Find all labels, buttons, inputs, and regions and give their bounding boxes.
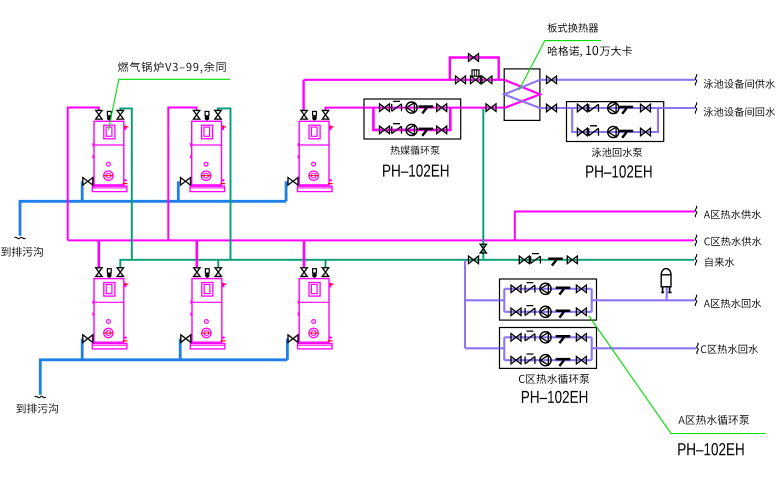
label: 燃气锅炉V3-99,余同 [118, 62, 226, 73]
break symbol on lower drain outlet [35, 396, 46, 398]
label: A区热水回水 [704, 299, 761, 308]
label: 泳池回水泵 [592, 148, 643, 157]
wire: violet C-zone pump manifold [500, 337, 597, 360]
label: PH-102EH pool [586, 165, 651, 177]
wire: blue drop boiler B6 [286, 339, 289, 360]
valve on tap water main near riser [469, 256, 479, 264]
wire: blue blowdown header upper row to drain [20, 201, 286, 236]
wire: violet pool pump branch bottom loop [572, 108, 658, 132]
break symbol A-zone return [695, 295, 697, 306]
wire: blue drop boiler B5 [179, 339, 182, 360]
wire: violet pool pump branch top row [567, 107, 664, 109]
label: PH-102EH A-zone [678, 443, 743, 455]
wire: teal riser from HX return line down to tap main [482, 109, 484, 260]
wire: violet suction branch to A-zone pump box [465, 299, 500, 301]
tap water meter group: flexible joint [531, 254, 541, 264]
valve on supply before control valve [456, 76, 466, 84]
label: PH-102EH heat medium [383, 164, 448, 176]
C-zone pump branch symbols P7 [511, 334, 521, 342]
pump branch symbols P1 (valve, flex joint, pump, check valve, valve) [380, 104, 390, 112]
break symbol C-zone return [697, 343, 699, 354]
leader line for boiler label [109, 79, 231, 130]
label: 哈格诺,10万大卡 [548, 46, 632, 57]
label: C区热水供水 [704, 237, 761, 246]
wire: violet secondary chevron inside heat exchanger [504, 80, 540, 108]
boiler B1 gas-fired V3-99 [83, 110, 129, 191]
break symbol tap water [695, 254, 697, 265]
wire: magenta supply header to heat exchanger y80 [304, 79, 505, 81]
label: 板式换热器 [548, 23, 599, 33]
label: A区热水供水 [704, 210, 761, 219]
label: 到排污沟 lower [16, 403, 58, 413]
wire: blue drop boiler B2 [177, 181, 180, 201]
valve on pool supply [547, 76, 557, 84]
pump unit box: heat medium circulating pumps [364, 99, 461, 139]
wire: violet pool return into pump box [540, 107, 567, 109]
motorized control valve with actuator [471, 70, 481, 84]
pump unit box: pool return pumps [567, 102, 664, 142]
wire: blue drop boiler B3 [285, 181, 288, 201]
wire: magenta pump outlet to heat exchanger bottom port [461, 107, 505, 109]
valve between pump outlet and heat exchanger [486, 104, 496, 112]
leader line for A-zone pump label [589, 316, 766, 434]
pump unit box: A-zone hot water circulating pumps [500, 279, 597, 320]
boiler B4 gas-fired V3-99 [83, 268, 129, 349]
break symbol pool supply [695, 74, 697, 85]
valve on supply after control valve [482, 76, 492, 84]
label: C区热水回水 [701, 344, 758, 353]
boiler B5 gas-fired V3-99 [181, 268, 227, 349]
label: 热媒循环泵 [391, 146, 440, 155]
wire: teal tap water drop from boiler B1 [120, 108, 132, 259]
wire: blue blowdown header lower row to drain [40, 360, 287, 395]
tap water meter group: valve [519, 256, 529, 264]
wire: blue drop boiler B1 [81, 181, 84, 201]
wire: magenta feed boiler B2 [168, 108, 196, 241]
pool pump branch symbols P4 [577, 128, 587, 136]
wire: violet C-zone return line [597, 347, 697, 349]
wire: violet pool equipment supply line [540, 79, 695, 81]
wire: magenta lower boiler B4 riser [98, 240, 101, 268]
pool pump branch symbols P3 [577, 104, 587, 112]
wire: magenta hot supply header C-zone y240 [68, 239, 694, 241]
boiler B6 gas-fired V3-99 [288, 268, 334, 349]
label: PH-102EH C-zone [522, 391, 587, 403]
wire: violet pool return out to label [664, 107, 695, 109]
label: 到排污沟 upper [1, 247, 43, 257]
heat exchanger U1 plate type [504, 69, 540, 121]
label: 自来水 [706, 257, 735, 267]
C-zone pump branch symbols P8 [511, 356, 521, 364]
wire: magenta bypass loop over control valve [450, 58, 499, 80]
wire: teal tap water drop from boiler B2 [218, 108, 231, 259]
wire: violet suction branch to C-zone pump box [465, 347, 500, 349]
valve on teal riser [480, 244, 486, 253]
wire: teal stub to boiler B5 [217, 260, 219, 268]
automatic air vent on A-zone return [661, 269, 671, 301]
wire: violet make-up drop feeding zone pump suctions [464, 260, 466, 349]
pump branch symbols P2 [380, 126, 390, 134]
boiler B2 gas-fired V3-99 [181, 110, 227, 191]
wire: magenta lower boiler B6 riser [303, 240, 306, 268]
boiler B3 gas-fired V3-99 [288, 110, 334, 191]
break symbol A-zone supply [695, 206, 697, 217]
wire: magenta feed boiler B1 [68, 108, 99, 241]
valve on pool return [547, 104, 557, 112]
tap water meter group: backflow check valve [548, 258, 563, 266]
wire: violet A-zone pump manifold [500, 289, 597, 312]
label: 泳池设备间供水 [704, 79, 775, 89]
tap water meter group: valve [567, 256, 577, 264]
break symbol on upper drain outlet [15, 237, 26, 239]
wire: violet A-zone return line [597, 299, 695, 301]
label: A区热水循环泵 [678, 415, 749, 425]
leader line for heat exchanger label [519, 41, 601, 90]
wire: magenta return boiler B3 from pump [326, 108, 365, 111]
wire: teal stub to boiler B6 [325, 260, 327, 268]
A-zone pump branch symbols P6 [511, 308, 521, 316]
label: C区热水循环泵 [519, 374, 590, 384]
pump unit box: C-zone hot water circulating pumps [500, 328, 597, 369]
label: 泳池设备间回水 [704, 107, 775, 117]
wire: magenta A-zone supply riser and run y211 [515, 212, 695, 241]
valve on bypass loop [469, 54, 479, 62]
wire: magenta primary chevron inside heat exchanger [504, 80, 540, 108]
wire: magenta riser boiler B3 supply [302, 80, 304, 111]
break symbol C-zone supply [695, 235, 697, 246]
wire: teal tap water main y260 [120, 260, 694, 268]
wire: magenta pump branch bottom loop [373, 108, 450, 130]
wire: magenta pump branch top row [364, 107, 461, 109]
break symbol pool return [695, 103, 697, 114]
wire: magenta lower boiler B5 riser [196, 240, 199, 268]
A-zone pump branch symbols P5 [511, 285, 521, 293]
wire: blue drop boiler B4 [81, 339, 84, 360]
